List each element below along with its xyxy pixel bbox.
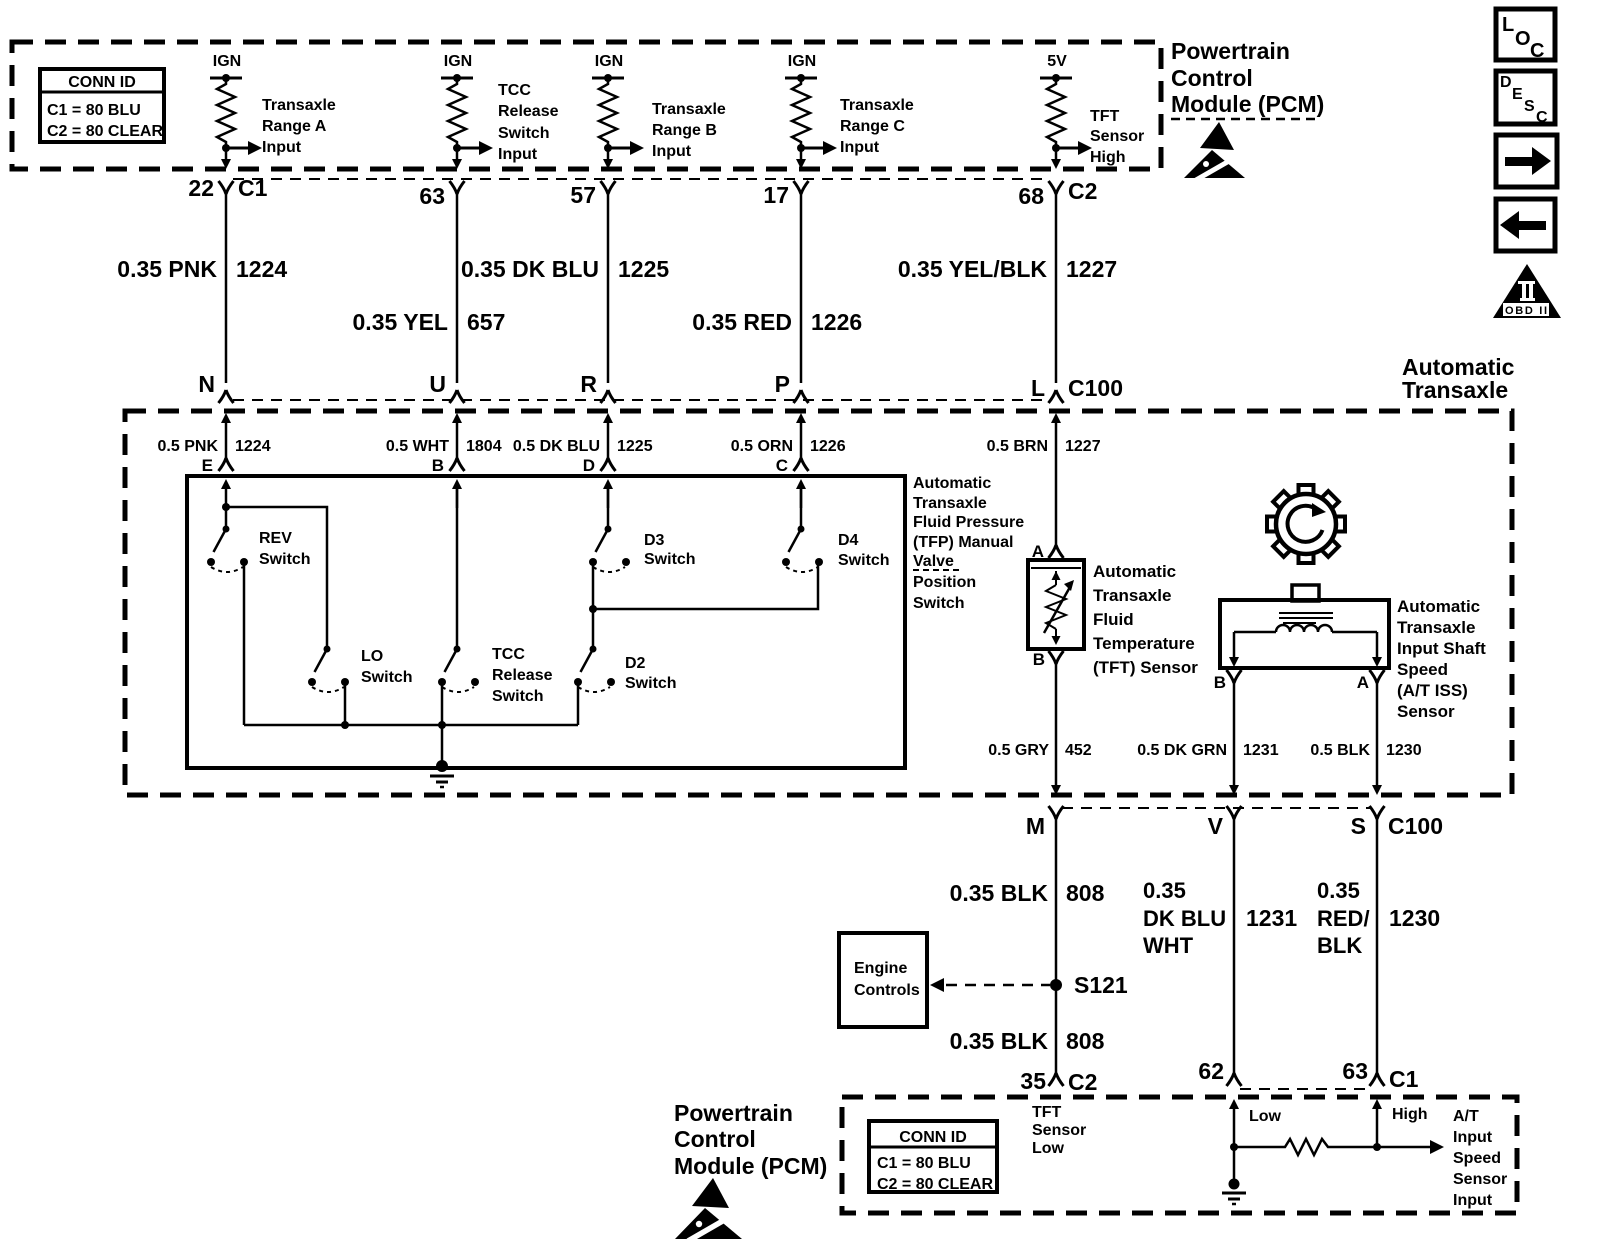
label: Automatic Transaxle Fluid Temperature (TFT) Sensor [1093, 562, 1198, 677]
svg-text:Transaxle: Transaxle [1402, 377, 1508, 403]
title: Powertrain Control Module (PCM) top right [1171, 38, 1324, 119]
dashed wire to Engine Controls [930, 978, 1050, 992]
signal arrow: A/T Input Speed Sensor Input [1377, 1108, 1507, 1209]
svg-text:0.35 PNK: 0.35 PNK [117, 256, 217, 282]
svg-text:Sensor: Sensor [1397, 702, 1455, 721]
svg-text:1230: 1230 [1389, 905, 1440, 931]
label: TCC Release Switch [492, 646, 525, 663]
switch REV Switch: pivot and arm [214, 526, 230, 553]
svg-text:TFT: TFT [1090, 108, 1120, 125]
node: resistor 2 output junction [453, 144, 461, 152]
wire: E down to REV pivot [225, 507, 228, 529]
svg-text:B: B [432, 456, 444, 475]
wire: junction to LO switch (over and down) [226, 507, 327, 646]
wire 0.5 BLK 1230 (ISS A to C100 S) [1310, 680, 1421, 795]
svg-text:657: 657 [467, 309, 505, 335]
wire: resistor 4 down to PCM connector [796, 148, 806, 169]
svg-text:57: 57 [570, 182, 596, 208]
wire: TCC left contact down to ground [441, 682, 444, 766]
wire 0.35 BLK 808 (M to S121) [950, 816, 1105, 1076]
wire 0.35 PNK 1224 (PCM to C100) [117, 190, 287, 383]
svg-text:E: E [1512, 86, 1523, 103]
wire 0.5 WHT 1804 entering transaxle [386, 413, 502, 459]
node: resistor 3 output junction [604, 144, 612, 152]
svg-text:C100: C100 [1388, 813, 1443, 839]
svg-text:L: L [1502, 14, 1514, 36]
svg-text:1225: 1225 [618, 256, 669, 282]
switch D3 Switch: pivot and arm [596, 526, 612, 553]
title: Automatic Transaxle [1402, 354, 1515, 403]
svg-text:Temperature: Temperature [1093, 634, 1195, 653]
svg-text:S121: S121 [1074, 972, 1128, 998]
svg-text:808: 808 [1066, 880, 1105, 906]
connector C1 line (thin dashed, bottom) [1240, 1088, 1372, 1090]
node: bus junction at LO [341, 721, 349, 729]
svg-text:CONN ID: CONN ID [68, 74, 136, 91]
wire: REV right contact down to bus [243, 562, 246, 725]
node N at C100 [198, 371, 233, 403]
CONN ID legend box (top) [40, 69, 164, 142]
connector C100 line (thin dashed, top) [233, 399, 1050, 401]
wire: 62 into PCM (Low) [1229, 1099, 1282, 1183]
svg-text:0.35 BLK: 0.35 BLK [950, 880, 1049, 906]
svg-text:0.35 BLK: 0.35 BLK [950, 1028, 1049, 1054]
svg-text:V: V [1208, 813, 1224, 839]
svg-text:Fluid: Fluid [1093, 610, 1134, 629]
svg-text:0.5 WHT: 0.5 WHT [386, 438, 449, 455]
svg-text:C: C [776, 456, 788, 475]
pin B of TFP switch [432, 456, 465, 508]
svg-text:Speed: Speed [1397, 660, 1448, 679]
gear icon (input shaft) [1267, 485, 1345, 563]
svg-text:0.35: 0.35 [1143, 878, 1186, 903]
svg-text:Transaxle: Transaxle [913, 495, 987, 512]
svg-text:0.35 RED: 0.35 RED [692, 309, 792, 335]
svg-text:Input Shaft: Input Shaft [1397, 639, 1486, 658]
svg-text:Switch: Switch [498, 125, 550, 142]
wire: C down to D4 pivot [800, 489, 803, 529]
splice S121 [1050, 972, 1128, 998]
node: junction at low side [1230, 1143, 1238, 1151]
node: junction at high side [1373, 1143, 1381, 1151]
svg-text:Switch: Switch [913, 595, 965, 612]
svg-text:1231: 1231 [1246, 905, 1297, 931]
svg-text:CONN ID: CONN ID [899, 1129, 967, 1146]
svg-text:62: 62 [1198, 1058, 1224, 1084]
signal tap arrow: TFT Sensor High [1056, 108, 1144, 166]
power rail IGN (col 4) [785, 53, 817, 82]
resistor R2 TCC Release pull-up [448, 78, 466, 148]
wire 0.35 DK BLU 1225 (PCM to C100) [461, 190, 669, 383]
svg-text:Range C: Range C [840, 118, 905, 135]
svg-text:High: High [1090, 149, 1126, 166]
svg-text:0.35 YEL/BLK: 0.35 YEL/BLK [898, 256, 1048, 282]
svg-text:Control: Control [674, 1126, 756, 1152]
svg-text:Controls: Controls [854, 982, 920, 999]
svg-text:Powertrain: Powertrain [1171, 38, 1290, 64]
svg-text:0.35 YEL: 0.35 YEL [353, 309, 448, 335]
wire 0.5 PNK 1224 entering transaxle [158, 413, 271, 459]
svg-text:1804: 1804 [466, 438, 502, 455]
svg-text:IGN: IGN [788, 53, 816, 70]
wire: L down to TFT sensor pin A [1032, 542, 1064, 561]
pin C of TFP switch [776, 456, 809, 508]
ground: speed sensor low reference [1222, 1179, 1246, 1205]
label: Automatic Transaxle Fluid Pressure (TFP) Manual Valve Position Switch [913, 475, 1024, 612]
svg-text:0.5 GRY: 0.5 GRY [988, 742, 1049, 759]
svg-text:Low: Low [1032, 1140, 1065, 1157]
svg-text:B: B [1214, 673, 1226, 692]
node S at C100 (bottom) [1351, 806, 1385, 839]
node P at C100 [775, 371, 809, 403]
svg-text:C1 = 80 BLU: C1 = 80 BLU [47, 102, 141, 119]
node: REV branch junction [222, 503, 230, 511]
switch TCC Release Switch: contacts [438, 678, 479, 692]
label: D3 Switch [644, 532, 696, 568]
node: resistor 5 output junction [1052, 144, 1060, 152]
svg-text:1230: 1230 [1386, 742, 1422, 759]
switch D4 Switch: contacts [782, 558, 823, 572]
svg-text:O: O [1515, 28, 1531, 50]
svg-text:P: P [775, 371, 790, 397]
svg-text:D4: D4 [838, 532, 859, 549]
wire: resistor 3 down to PCM connector [603, 148, 613, 169]
svg-text:Automatic: Automatic [913, 475, 991, 492]
wire: resistor 2 down to PCM connector [452, 148, 462, 169]
svg-text:REV: REV [259, 530, 292, 547]
svg-text:L: L [1031, 375, 1045, 401]
svg-text:RED/: RED/ [1317, 906, 1370, 931]
wire: resistor 5 down to PCM connector [1051, 148, 1061, 169]
wire 0.5 ORN 1226 entering transaxle [731, 413, 846, 459]
svg-text:C: C [1536, 109, 1548, 126]
svg-text:Release: Release [498, 103, 559, 120]
resistor: speed sensor input (internal) [1234, 1139, 1377, 1155]
node: resistor 4 output junction [797, 144, 805, 152]
svg-text:C1 = 80 BLU: C1 = 80 BLU [877, 1155, 971, 1172]
svg-text:IGN: IGN [595, 53, 623, 70]
svg-text:Sensor: Sensor [1453, 1171, 1507, 1188]
svg-text:1224: 1224 [236, 256, 287, 282]
svg-text:DK BLU: DK BLU [1143, 906, 1226, 931]
svg-text:N: N [198, 371, 215, 397]
svg-text:OBD II: OBD II [1505, 305, 1547, 317]
svg-text:Input: Input [498, 146, 538, 163]
signal tap arrow: Transaxle Range B Input [608, 101, 726, 160]
svg-text:Switch: Switch [361, 669, 413, 686]
power rail IGN (col 2) [441, 53, 473, 82]
wire 0.35 BLK 808 (S121 to PCM 35) [950, 1028, 1105, 1054]
svg-text:Automatic: Automatic [1397, 597, 1480, 616]
icon: OBD II triangle [1493, 264, 1561, 318]
svg-text:A/T: A/T [1453, 1108, 1479, 1125]
node: bus junction at TCC/ground [438, 721, 446, 729]
svg-text:17: 17 [763, 182, 789, 208]
label: LO Switch [361, 648, 413, 686]
svg-text:C100: C100 [1068, 375, 1123, 401]
svg-text:Module (PCM): Module (PCM) [1171, 91, 1324, 117]
svg-text:0.5 PNK: 0.5 PNK [158, 438, 219, 455]
node L at C100 [1031, 375, 1064, 403]
node M at C100 (bottom) [1026, 806, 1064, 839]
svg-text:Speed: Speed [1453, 1150, 1501, 1167]
svg-text:BLK: BLK [1317, 933, 1362, 958]
wire: coil to pin A (inside box) [1372, 632, 1382, 667]
svg-text:(TFT) Sensor: (TFT) Sensor [1093, 658, 1198, 677]
wire: D3 left contact down to D2 pivot [592, 562, 595, 649]
TFP Manual Valve Position Switch box [187, 476, 905, 768]
svg-text:TFT: TFT [1032, 1104, 1062, 1121]
pin 22 (C1) PCM connector fork [188, 175, 267, 201]
wire 0.35 DK BLU/WHT 1231 (V to PCM 62) [1143, 816, 1297, 1076]
wire: resistor 1 down to PCM connector [221, 148, 231, 169]
resistor R1 Transaxle Range A pull-up [217, 78, 235, 148]
svg-text:WHT: WHT [1143, 933, 1194, 958]
node U at C100 [429, 371, 464, 403]
svg-text:C2 = 80 CLEAR: C2 = 80 CLEAR [47, 123, 163, 140]
svg-text:22: 22 [188, 175, 214, 201]
pin 63 (C1) PCM connector [1342, 1058, 1418, 1092]
node: resistor 1 output junction [222, 144, 230, 152]
top PCM dashed box [12, 42, 1161, 169]
wire: TFT B down to C100 M [988, 661, 1092, 795]
svg-text:D: D [583, 456, 595, 475]
wire: D2 left contact down to bus [577, 682, 580, 725]
svg-text:Input: Input [652, 143, 692, 160]
svg-text:Valve: Valve [913, 553, 954, 570]
svg-text:Switch: Switch [259, 551, 311, 568]
pin A of ISS sensor [1357, 670, 1385, 692]
svg-text:Switch: Switch [838, 552, 890, 569]
bottom PCM dashed box [842, 1097, 1517, 1213]
wire 0.5 DK BLU 1225 entering transaxle [513, 413, 653, 459]
ESD warning symbol (top right) [1184, 122, 1245, 180]
TFT sensor (thermistor) box [1028, 560, 1084, 649]
svg-text:TCC: TCC [498, 82, 531, 99]
ground: TFP switch common [430, 760, 454, 787]
svg-text:1227: 1227 [1065, 438, 1101, 455]
svg-text:Sensor: Sensor [1032, 1122, 1086, 1139]
svg-text:Transaxle: Transaxle [1397, 618, 1475, 637]
switch D3 Switch: contacts [589, 558, 630, 572]
svg-text:Module (PCM): Module (PCM) [674, 1153, 827, 1179]
wire: D down to D3 pivot [607, 489, 610, 529]
svg-text:IGN: IGN [213, 53, 241, 70]
svg-text:C2: C2 [1068, 1069, 1097, 1095]
svg-text:D2: D2 [625, 655, 646, 672]
svg-text:C1: C1 [238, 175, 268, 201]
ISS sensor core laminations [1279, 613, 1333, 623]
svg-text:1227: 1227 [1066, 256, 1117, 282]
pin 63 PCM connector fork [419, 181, 464, 209]
svg-text:S: S [1351, 813, 1366, 839]
svg-text:D3: D3 [644, 532, 665, 549]
signal tap arrow: Transaxle Range A Input [226, 97, 336, 156]
label: Automatic Transaxle Input Shaft Speed (A/T ISS) Sensor [1397, 597, 1486, 721]
Engine Controls box [839, 933, 927, 1027]
switch LO Switch: contacts [308, 678, 349, 692]
Automatic Transaxle dashed box [125, 411, 1512, 795]
power rail IGN (col 1) [210, 53, 242, 82]
svg-text:Control: Control [1171, 65, 1253, 91]
svg-text:Low: Low [1249, 1108, 1282, 1125]
wire 0.35 RED 1226 (PCM to C100) [692, 190, 862, 383]
svg-text:63: 63 [1342, 1058, 1368, 1084]
resistor R3 Transaxle Range B pull-up [599, 78, 617, 148]
CONN ID legend box (bottom) [869, 1121, 997, 1193]
svg-text:M: M [1026, 813, 1045, 839]
svg-text:C: C [1530, 40, 1544, 62]
svg-text:Input: Input [1453, 1129, 1493, 1146]
svg-text:35: 35 [1020, 1068, 1046, 1094]
label: D4 Switch [838, 532, 890, 569]
label: REV Switch [259, 530, 311, 568]
svg-text:B: B [1033, 650, 1045, 669]
svg-text:Release: Release [492, 667, 553, 684]
svg-text:LO: LO [361, 648, 383, 665]
icon: LOC box [1496, 9, 1555, 62]
pin 62 PCM connector [1198, 1058, 1241, 1086]
switch LO Switch: pivot and arm [315, 646, 331, 673]
thermistor symbol inside TFT sensor [1044, 571, 1074, 645]
icon: forward arrow box [1496, 135, 1557, 187]
icon: DESC box [1496, 71, 1555, 126]
switch D2 Switch: contacts [574, 678, 615, 692]
svg-text:D: D [1500, 74, 1512, 91]
svg-text:1226: 1226 [811, 309, 862, 335]
resistor R5 TFT Sensor pull-up [1047, 78, 1065, 148]
ESD warning symbol (bottom left) [675, 1178, 742, 1241]
signal tap arrow: TCC Release Switch Input [457, 82, 559, 163]
svg-text:1225: 1225 [617, 438, 653, 455]
svg-text:Range B: Range B [652, 122, 717, 139]
svg-text:0.5 BLK: 0.5 BLK [1310, 742, 1370, 759]
svg-text:C2 = 80 CLEAR: C2 = 80 CLEAR [877, 1176, 993, 1193]
svg-text:1226: 1226 [810, 438, 846, 455]
svg-text:63: 63 [419, 183, 445, 209]
svg-text:Range A: Range A [262, 118, 327, 135]
switch TCC Release Switch: pivot and arm [445, 646, 461, 673]
wire 0.35 YEL 657 (PCM to C100) [353, 190, 506, 383]
pin E of TFP switch [202, 456, 234, 508]
pin 68 (C2) PCM connector fork [1018, 178, 1097, 209]
wire: coil to pin B (inside box) [1229, 632, 1239, 667]
svg-text:Powertrain: Powertrain [674, 1100, 793, 1126]
svg-text:Input: Input [262, 139, 302, 156]
svg-text:68: 68 [1018, 183, 1044, 209]
svg-text:1231: 1231 [1243, 742, 1279, 759]
svg-text:Transaxle: Transaxle [652, 101, 726, 118]
svg-text:Input: Input [840, 139, 880, 156]
svg-text:(TFP) Manual: (TFP) Manual [913, 534, 1013, 551]
svg-text:Sensor: Sensor [1090, 128, 1144, 145]
label: TFT Sensor Low [1032, 1104, 1086, 1157]
svg-text:Fluid Pressure: Fluid Pressure [913, 514, 1024, 531]
signal tap arrow: Transaxle Range C Input [801, 97, 914, 156]
power rail 5V (col 5) [1040, 53, 1072, 82]
node: D3/D4 tie junction [589, 605, 597, 613]
connector C100 line (thin dashed, bottom) [1062, 807, 1372, 809]
pin 35 (C2) PCM connector [1020, 1068, 1097, 1095]
connector line C1/C2 (thin dashed) [233, 178, 1050, 180]
svg-text:0.5 DK GRN: 0.5 DK GRN [1137, 742, 1227, 759]
wire: B down to TCC pivot [456, 489, 459, 649]
pin 57 PCM connector fork [570, 181, 615, 208]
svg-text:808: 808 [1066, 1028, 1105, 1054]
svg-text:(A/T ISS): (A/T ISS) [1397, 681, 1468, 700]
svg-text:S: S [1524, 98, 1535, 115]
wire: common bus across switch bottoms [244, 724, 578, 727]
svg-text:A: A [1357, 673, 1369, 692]
switch D4 Switch: pivot and arm [789, 526, 805, 553]
svg-text:Switch: Switch [625, 675, 677, 692]
svg-text:0.5 BRN: 0.5 BRN [987, 438, 1048, 455]
svg-text:0.5 ORN: 0.5 ORN [731, 438, 793, 455]
svg-text:0.5 DK BLU: 0.5 DK BLU [513, 438, 600, 455]
switch REV Switch: contacts [207, 558, 248, 572]
svg-text:E: E [202, 456, 213, 475]
title: Powertrain Control Module (PCM) bottom left [674, 1100, 827, 1179]
node R at C100 [580, 371, 615, 403]
svg-text:Transaxle: Transaxle [840, 97, 914, 114]
icon: back arrow box [1496, 199, 1555, 251]
label: D2 Switch [625, 655, 677, 692]
svg-text:0.35: 0.35 [1317, 878, 1360, 903]
wire: junction across to D4 right contact [593, 562, 818, 609]
ISS sensor coil [1234, 625, 1377, 632]
wire 0.35 YEL/BLK 1227 (PCM to C100) [898, 190, 1117, 383]
pin B of ISS sensor [1214, 670, 1242, 692]
svg-text:Switch: Switch [644, 551, 696, 568]
pin 17 PCM connector fork [763, 181, 808, 208]
wire: 63 into PCM (High) [1372, 1099, 1428, 1147]
svg-text:C1: C1 [1389, 1066, 1419, 1092]
wire: LO right contact down to bus [344, 682, 347, 725]
node V at C100 (bottom) [1208, 806, 1242, 839]
A/T ISS sensor body [1220, 585, 1389, 668]
svg-text:5V: 5V [1047, 53, 1067, 70]
svg-text:452: 452 [1065, 742, 1092, 759]
svg-text:1224: 1224 [235, 438, 271, 455]
svg-text:Transaxle: Transaxle [262, 97, 336, 114]
svg-text:C2: C2 [1068, 178, 1097, 204]
resistor R4 Transaxle Range C pull-up [792, 78, 810, 148]
svg-text:Automatic: Automatic [1093, 562, 1176, 581]
svg-text:Input: Input [1453, 1192, 1493, 1209]
switch D2 Switch: pivot and arm [581, 646, 597, 673]
svg-text:IGN: IGN [444, 53, 472, 70]
svg-text:U: U [429, 371, 446, 397]
wire 0.5 DK GRN 1231 (ISS B to C100 V) [1137, 680, 1278, 795]
pin B of TFT sensor [1033, 650, 1064, 669]
svg-text:Switch: Switch [492, 688, 544, 705]
wire 0.35 RED/BLK 1230 (S to PCM 63) [1317, 816, 1440, 1076]
svg-text:Position: Position [913, 574, 976, 591]
pin D of TFP switch [583, 456, 616, 508]
wire 0.5 BRN 1227 entering transaxle [987, 413, 1101, 548]
svg-text:R: R [580, 371, 597, 397]
svg-text:High: High [1392, 1106, 1428, 1123]
svg-text:TCC: TCC [492, 646, 525, 663]
svg-text:Transaxle: Transaxle [1093, 586, 1171, 605]
svg-text:Engine: Engine [854, 960, 907, 977]
power rail IGN (col 3) [592, 53, 624, 82]
svg-text:0.35 DK BLU: 0.35 DK BLU [461, 256, 599, 282]
